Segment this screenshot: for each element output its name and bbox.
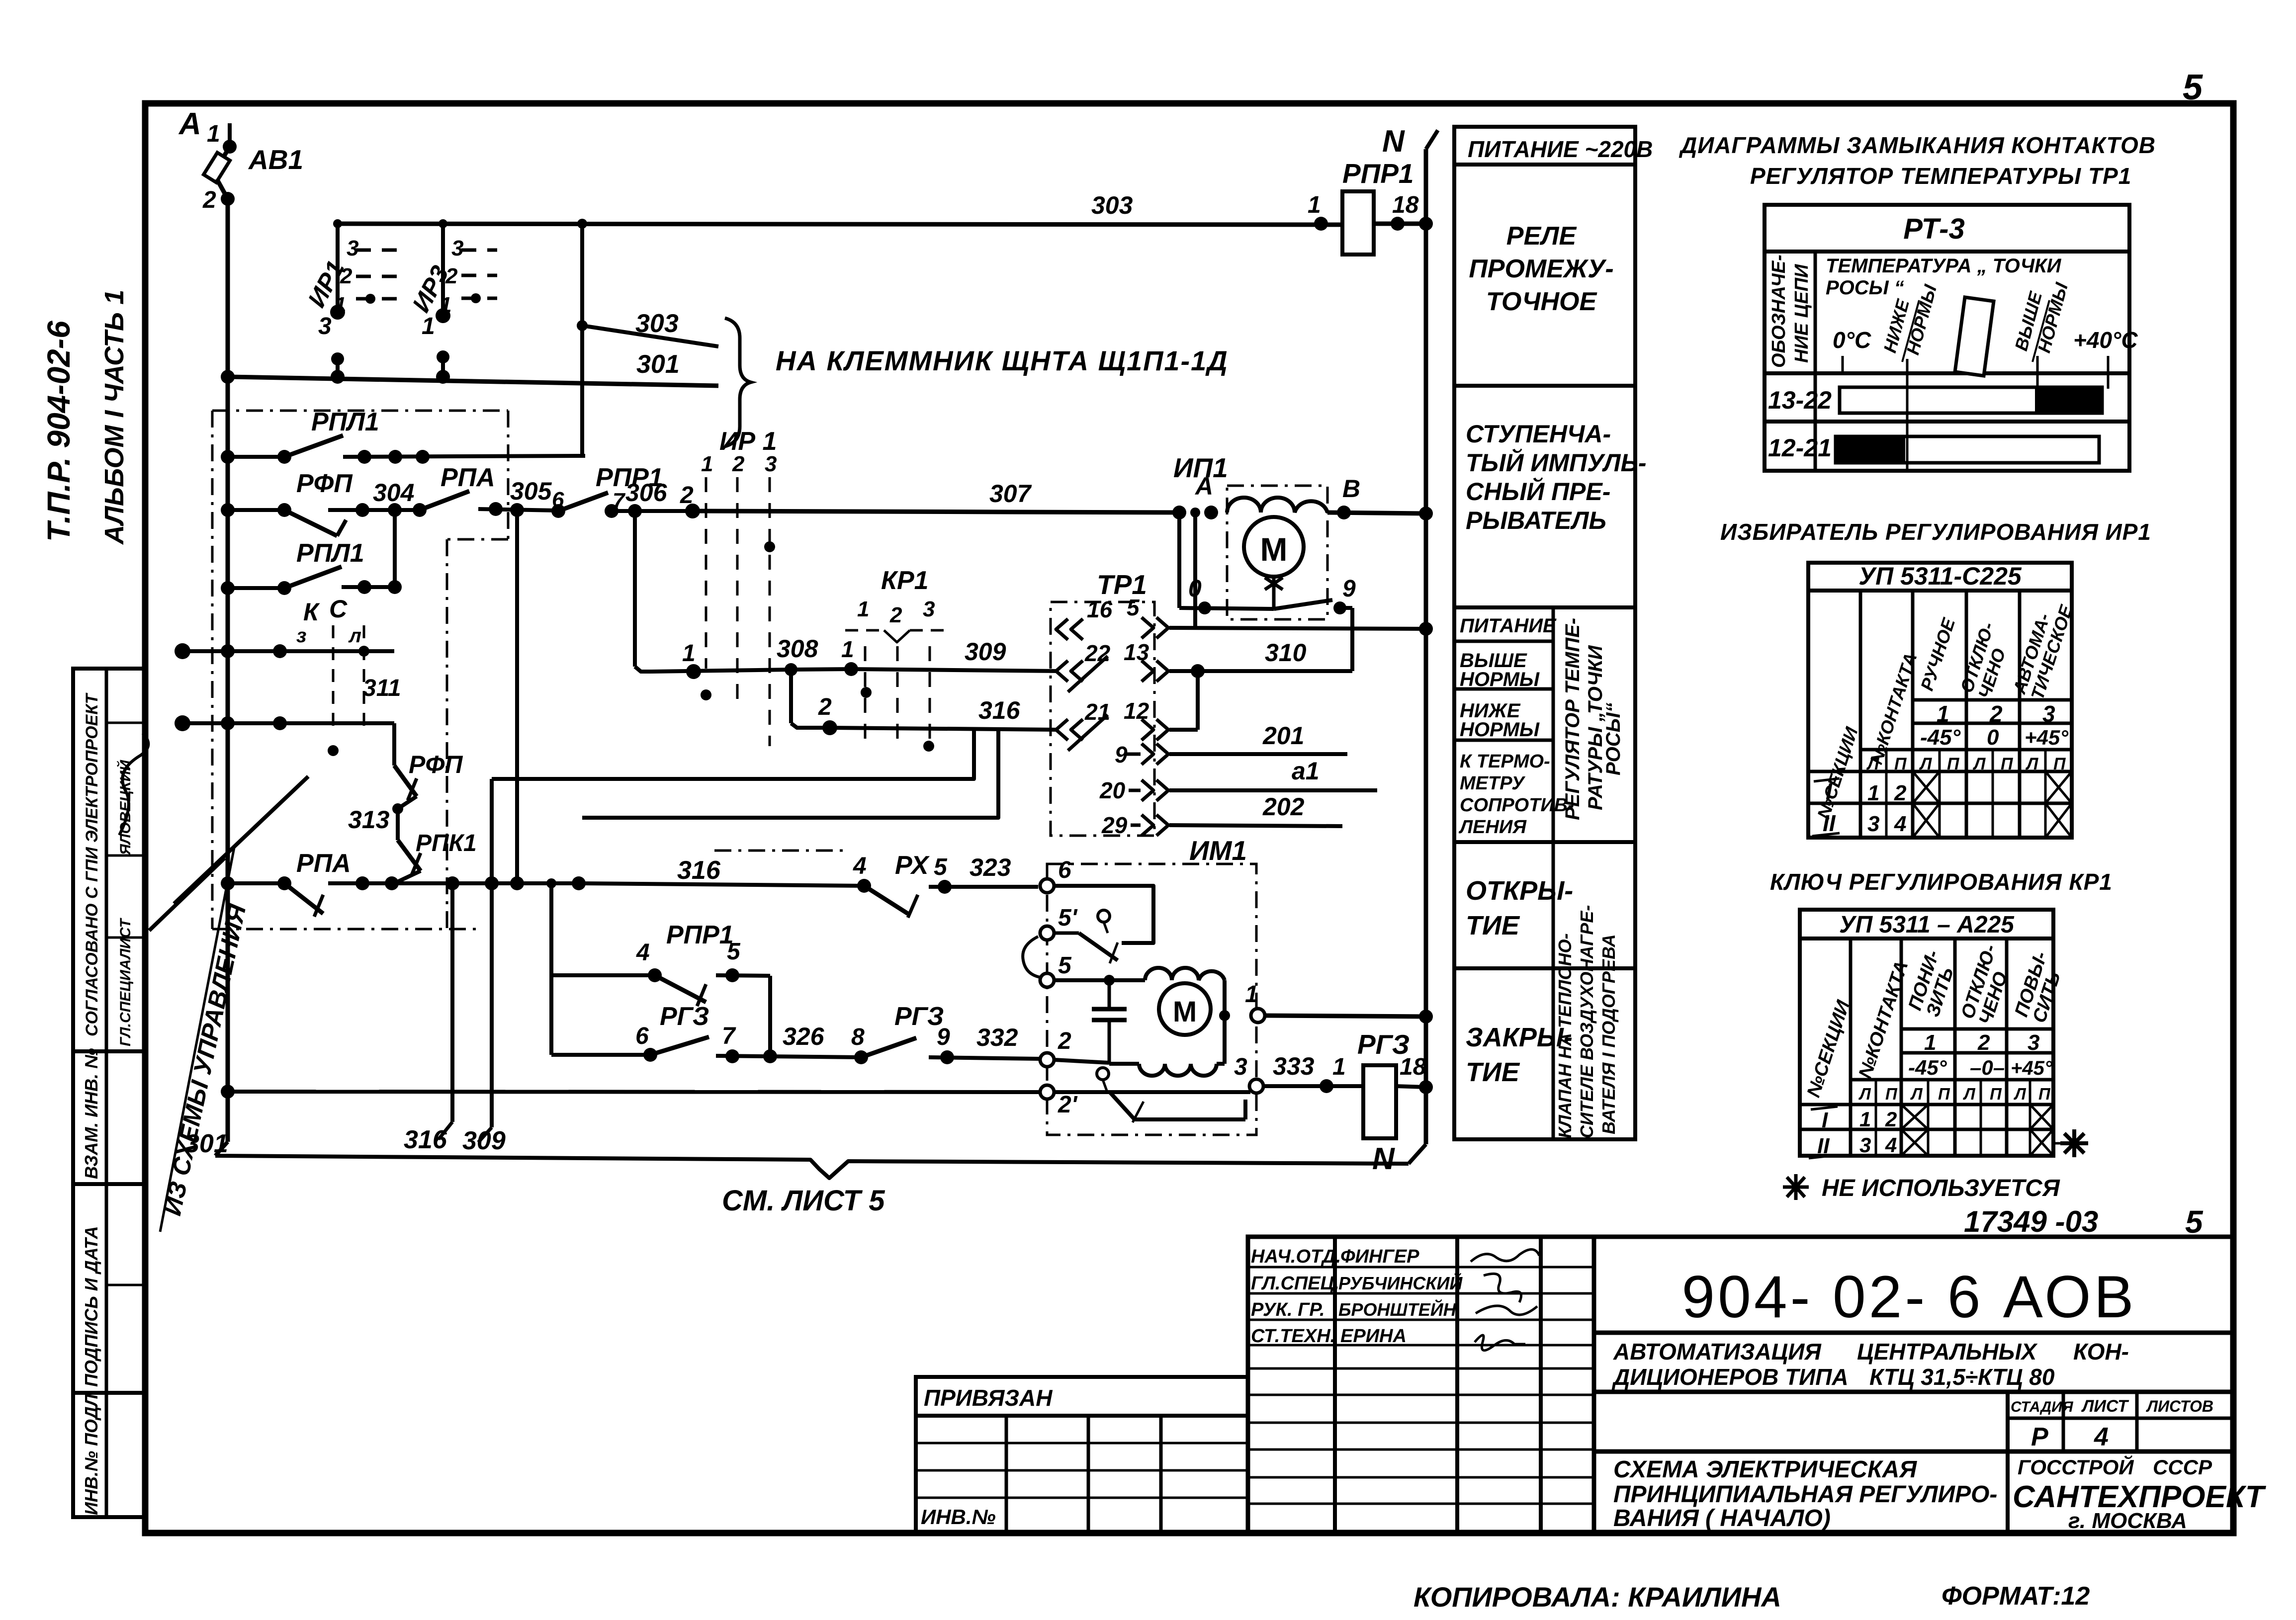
svg-text:РТ-3: РТ-3	[1903, 213, 1964, 245]
KR1 table row L P cells	[1875, 1080, 1877, 1156]
contact RX row wire 323	[857, 879, 871, 893]
svg-text:0°С: 0°С	[1833, 327, 1871, 353]
svg-text:12: 12	[1124, 698, 1149, 724]
svg-text:1: 1	[682, 640, 696, 667]
svg-text:ГЛ.СПЕЦИАЛИСТ: ГЛ.СПЕЦИАЛИСТ	[117, 918, 134, 1046]
IP1 motor circle M	[1244, 517, 1304, 577]
svg-text:5: 5	[1127, 595, 1140, 620]
wire 304 segment	[328, 508, 420, 512]
svg-text:304: 304	[373, 479, 414, 507]
svg-text:306: 306	[625, 479, 668, 507]
svg-text:СНЫЙ ПРЕ-: СНЫЙ ПРЕ-	[1466, 477, 1610, 506]
svg-text:+45°: +45°	[2025, 726, 2069, 749]
chain RFP 313 RPK1 vertical	[392, 723, 396, 766]
contact RGZ row wire 326 332	[643, 1048, 657, 1062]
svg-text:4: 4	[636, 939, 650, 966]
see sheet 5 bottom wire	[215, 1156, 1409, 1178]
svg-text:2: 2	[680, 482, 694, 509]
wire to IM1 terminal 2prime from left bus	[228, 1092, 1040, 1092]
IM1 terminal 3 wire 333	[1249, 1079, 1263, 1093]
svg-text:5: 5	[1058, 952, 1072, 979]
svg-text:18: 18	[1400, 1054, 1426, 1080]
wire 311 row with terminal dot	[175, 715, 190, 731]
svg-text:НА КЛЕММНИК ЩНТА Щ1П1-1Д: НА КЛЕММНИК ЩНТА Щ1П1-1Д	[776, 345, 1229, 376]
svg-text:4: 4	[853, 853, 867, 879]
svg-text:з: з	[296, 625, 306, 647]
svg-text:КЛАПАН НА ТЕПЛОНО-: КЛАПАН НА ТЕПЛОНО-	[1555, 934, 1575, 1138]
svg-text:РПА: РПА	[441, 463, 495, 492]
svg-text:АВТОМАТИЗАЦИЯ: АВТОМАТИЗАЦИЯ	[1613, 1339, 1822, 1364]
svg-text:РПЛ1: РПЛ1	[296, 539, 364, 568]
svg-text:301: 301	[636, 350, 680, 379]
svg-text:13: 13	[1124, 639, 1149, 665]
svg-text:УП 5311 – А225: УП 5311 – А225	[1839, 912, 2015, 938]
link 306 down to row B	[633, 511, 637, 667]
svg-text:ВАНИЯ ( НАЧАЛО): ВАНИЯ ( НАЧАЛО)	[1613, 1505, 1831, 1532]
wire 307 to IP1	[685, 504, 700, 518]
svg-text:ГЛ.СПЕЦ.: ГЛ.СПЕЦ.	[1251, 1273, 1339, 1294]
svg-text:М: М	[1260, 531, 1288, 568]
wire 309 row B continuation	[791, 669, 851, 670]
wire 301 bottom label and lead to sheet5 line	[215, 1142, 228, 1156]
svg-text:310: 310	[1265, 639, 1307, 667]
svg-text:2: 2	[1058, 1028, 1071, 1054]
svg-text:1: 1	[701, 452, 713, 476]
svg-text:-45°: -45°	[1908, 1056, 1947, 1079]
svg-text:ИНВ.№: ИНВ.№	[921, 1505, 996, 1529]
svg-text:1: 1	[422, 313, 435, 340]
svg-text:НИЕ ЦЕПИ: НИЕ ЦЕПИ	[1791, 264, 1812, 363]
svg-text:303: 303	[635, 309, 679, 338]
IP1 winding arcs	[1227, 498, 1327, 512]
svg-text:308: 308	[777, 635, 818, 663]
svg-text:ФИНГЕР: ФИНГЕР	[1340, 1246, 1419, 1267]
wire 301 vertical bus from AB1	[226, 199, 230, 1142]
svg-text:АЛЬБОМ I ЧАСТЬ 1: АЛЬБОМ I ЧАСТЬ 1	[99, 290, 129, 545]
svg-text:326: 326	[783, 1023, 825, 1050]
svg-text:323: 323	[970, 853, 1011, 881]
svg-text:1: 1	[334, 293, 346, 317]
svg-text:НОРМЫ: НОРМЫ	[1460, 719, 1540, 741]
privyazan table	[916, 1377, 1248, 1533]
svg-text:1: 1	[1859, 1108, 1871, 1131]
svg-text:22: 22	[1084, 640, 1111, 666]
IP1 centrifugal switch	[1272, 576, 1276, 609]
svg-text:+45°: +45°	[2011, 1057, 2053, 1079]
svg-text:КР1: КР1	[881, 566, 929, 595]
svg-text:N: N	[1382, 124, 1405, 159]
svg-text:9: 9	[937, 1024, 950, 1050]
contact RPL1 row	[277, 581, 291, 595]
svg-text:9: 9	[1115, 742, 1128, 767]
actuator IM1 dash-dot box	[1047, 864, 1256, 1135]
svg-text:21: 21	[1084, 699, 1110, 725]
svg-text:333: 333	[1273, 1052, 1315, 1080]
svg-text:5: 5	[2185, 1204, 2204, 1240]
contact RPR1 NC bottom	[551, 973, 655, 977]
vertical wire 316 to bottom	[450, 883, 454, 1122]
title block staff table	[1248, 1237, 1594, 1533]
svg-text:332: 332	[976, 1023, 1018, 1051]
TR1 contact 21-12 row	[1056, 719, 1068, 740]
svg-text:г. МОСКВА: г. МОСКВА	[2068, 1509, 2187, 1533]
svg-text:5: 5	[727, 938, 741, 965]
svg-text:1: 1	[440, 293, 451, 317]
svg-text:20: 20	[1099, 777, 1126, 803]
svg-text:29: 29	[1101, 812, 1128, 838]
return wire y1645	[582, 730, 998, 818]
IM1 terminal 1 to N bus	[1251, 1009, 1265, 1023]
svg-text:П: П	[2038, 1085, 2051, 1103]
svg-text:309: 309	[965, 638, 1006, 666]
svg-text:18: 18	[1392, 192, 1419, 218]
svg-text:Р: Р	[2031, 1423, 2048, 1451]
svg-text:ИЗБИРАТЕЛЬ РЕГУЛИРОВАНИЯ: ИЗБИРАТЕЛЬ РЕГУЛИРОВАНИЯ ИР1	[1720, 519, 2151, 545]
svg-text:МЕТРУ: МЕТРУ	[1460, 773, 1526, 794]
svg-text:АВ1: АВ1	[248, 144, 303, 175]
svg-text:ВАТЕЛЯ I ПОДОГРЕВА: ВАТЕЛЯ I ПОДОГРЕВА	[1598, 934, 1619, 1134]
legend regulator temperatury section	[1552, 607, 1555, 1139]
svg-text:ИМ1: ИМ1	[1189, 835, 1247, 866]
svg-text:В: В	[1342, 475, 1360, 503]
svg-text:ДИЦИОНЕРОВ ТИПА: ДИЦИОНЕРОВ ТИПА	[1611, 1364, 1849, 1390]
svg-text:17349 -03: 17349 -03	[1964, 1205, 2098, 1238]
svg-text:904- 02- 6 АОВ: 904- 02- 6 АОВ	[1681, 1264, 2136, 1330]
svg-text:П: П	[1990, 1085, 2002, 1103]
svg-text:2: 2	[340, 264, 353, 288]
sidebar signature squiggle	[119, 733, 148, 835]
svg-text:а1: а1	[1292, 757, 1320, 785]
svg-text:ТР1: ТР1	[1097, 569, 1147, 600]
svg-text:РПА: РПА	[296, 849, 351, 878]
svg-text:II: II	[1823, 810, 1836, 836]
svg-text:3: 3	[1859, 1133, 1871, 1157]
svg-text:ТЕМПЕРАТУРА „ ТОЧКИ: ТЕМПЕРАТУРА „ ТОЧКИ	[1826, 255, 2062, 277]
contact RPA bottom row wire 316	[277, 876, 291, 890]
svg-text:л: л	[348, 625, 361, 647]
svg-text:311: 311	[363, 675, 401, 701]
svg-text:305: 305	[510, 477, 552, 505]
svg-text:РХ: РХ	[895, 851, 930, 880]
svg-text:НЕ ИСПОЛЬЗУЕТСЯ: НЕ ИСПОЛЬЗУЕТСЯ	[1822, 1175, 2060, 1201]
TR1 contact 16-5 row	[1193, 512, 1197, 628]
svg-text:201: 201	[1262, 722, 1304, 750]
RT-3 parallelogram pointer	[1955, 297, 1994, 376]
svg-text:БРОНШТЕЙН: БРОНШТЕЙН	[1338, 1299, 1457, 1320]
svg-text:СОГЛАСОВАНО С ГПИ ЭЛЕКТРОПР: СОГЛАСОВАНО С ГПИ ЭЛЕКТРОПРОЕКТ	[83, 692, 101, 1036]
svg-text:6: 6	[1058, 857, 1071, 883]
IM1 linkage arc between 5prime and 5	[1023, 937, 1040, 977]
svg-text:ТЫЙ ИМПУЛЬ-: ТЫЙ ИМПУЛЬ-	[1466, 448, 1647, 477]
svg-text:ЦЕНТРАЛЬНЫХ: ЦЕНТРАЛЬНЫХ	[1857, 1339, 2037, 1364]
KS row stub with terminal dot	[175, 643, 190, 659]
svg-text:5: 5	[934, 854, 948, 880]
svg-text:303: 303	[1091, 191, 1133, 219]
staff signatures	[1471, 1249, 1539, 1262]
svg-text:КОПИРОВАЛА: КРАИЛИНА: КОПИРОВАЛА: КРАИЛИНА	[1413, 1581, 1781, 1613]
vertical link 304 to RPL1 row	[393, 510, 397, 587]
svg-text:2: 2	[818, 694, 832, 720]
svg-text:2: 2	[202, 187, 216, 213]
wire 303 top horizontal	[338, 224, 1342, 225]
svg-text:РПР1: РПР1	[1342, 158, 1414, 189]
note ne ispolzuetsya	[1783, 1174, 1809, 1200]
svg-text:N: N	[1372, 1142, 1395, 1176]
IM1 terminal 5prime	[1040, 926, 1054, 940]
wire 303 stub to terminal strip	[580, 224, 584, 456]
svg-text:РОСЫ “: РОСЫ “	[1826, 277, 1904, 299]
vertical 309 drop	[490, 779, 494, 1127]
svg-text:+40°С: +40°С	[2073, 327, 2138, 353]
svg-text:А: А	[1194, 472, 1213, 500]
svg-text:9: 9	[1342, 576, 1356, 602]
wire 316 row C	[789, 670, 793, 723]
IM1 lower limit contact	[1054, 1090, 1250, 1094]
svg-text:РЕГУЛЯТОР ТЕМПЕ-: РЕГУЛЯТОР ТЕМПЕ-	[1562, 618, 1584, 820]
svg-text:Л: Л	[1963, 1085, 1976, 1103]
svg-text:202: 202	[1262, 793, 1305, 821]
IM1 motor and windings	[1054, 978, 1145, 982]
svg-text:2: 2	[1885, 1108, 1897, 1131]
svg-text:316: 316	[978, 696, 1021, 724]
svg-text:1: 1	[1332, 1054, 1346, 1080]
svg-text:7: 7	[722, 1023, 736, 1049]
svg-text:Л: Л	[1910, 1085, 1923, 1103]
svg-text:ВЗАМ. ИНВ. №: ВЗАМ. ИНВ. №	[81, 1048, 101, 1179]
mechanical linkage dash-dot	[714, 850, 845, 852]
IR1 table row L P cells	[1885, 750, 1888, 838]
svg-text:3: 3	[1234, 1054, 1247, 1080]
svg-text:Л: Л	[2014, 1085, 2027, 1103]
svg-text:ЛЕНИЯ: ЛЕНИЯ	[1458, 817, 1527, 838]
svg-text:СТУПЕНЧА-: СТУПЕНЧА-	[1466, 420, 1611, 448]
svg-text:СОПРОТИВ-: СОПРОТИВ-	[1460, 795, 1574, 816]
svg-text:1: 1	[1308, 192, 1321, 218]
contact RPR1 row A	[551, 504, 565, 518]
svg-text:А: А	[178, 107, 201, 141]
IP1 bottom terminals 0 and 9	[1177, 512, 1181, 608]
svg-text:12-21: 12-21	[1768, 434, 1832, 462]
svg-text:2: 2	[732, 452, 745, 476]
vertical 316 drop from node 305	[515, 510, 519, 883]
svg-text:К ТЕРМО-: К ТЕРМО-	[1460, 751, 1550, 772]
svg-text:СТ.ТЕХН.: СТ.ТЕХН.	[1251, 1326, 1335, 1347]
svg-text:4: 4	[2094, 1423, 2109, 1451]
svg-text:II: II	[1817, 1134, 1830, 1158]
IM1 capacitor	[1108, 980, 1111, 1009]
diagonal note iz skhemy upravleniya	[174, 776, 308, 904]
svg-text:РГЗ: РГЗ	[660, 1002, 709, 1031]
svg-text:СТАДИЯ: СТАДИЯ	[2011, 1399, 2074, 1415]
svg-text:Л: Л	[1858, 1085, 1871, 1103]
stadia list listov header cells	[2006, 1392, 2010, 1533]
svg-text:3: 3	[765, 452, 777, 476]
svg-text:ПИТАНИЕ ~220В: ПИТАНИЕ ~220В	[1468, 136, 1653, 162]
svg-text:ДИАГРАММЫ ЗАМЫКАНИЯ КОНТАК: ДИАГРАММЫ ЗАМЫКАНИЯ КОНТАКТОВ	[1678, 132, 2156, 158]
svg-text:316: 316	[677, 856, 721, 885]
svg-text:0: 0	[1987, 725, 1999, 750]
svg-text:НАЧ.ОТД.: НАЧ.ОТД.	[1251, 1246, 1341, 1267]
svg-text:313: 313	[348, 806, 390, 834]
IR1 table row 1 2 3	[1913, 698, 2072, 702]
svg-text:РЕГУЛЯТОР ТЕМПЕРАТУРЫ ТР1: РЕГУЛЯТОР ТЕМПЕРАТУРЫ ТР1	[1750, 163, 2131, 189]
svg-text:316: 316	[404, 1125, 447, 1154]
KR1 asterisk marker	[2060, 1129, 2088, 1157]
interrupter IP1 dash-dot box	[1227, 486, 1327, 619]
relay coil RGZ	[1363, 1065, 1396, 1138]
svg-text:С: С	[329, 595, 348, 623]
svg-text:РОСЫ“: РОСЫ“	[1602, 702, 1624, 775]
svg-text:–0–: –0–	[1970, 1056, 2005, 1079]
svg-text:УП 5311-С225: УП 5311-С225	[1858, 562, 2022, 590]
legend table pitanie 220V column	[1454, 127, 1635, 1139]
svg-text:РУБЧИНСКИЙ: РУБЧИНСКИЙ	[1338, 1273, 1463, 1293]
table UP 5311-A225 frame	[1800, 910, 2053, 1156]
svg-text:1: 1	[857, 597, 869, 621]
table RT-3 frame	[1765, 205, 2129, 471]
svg-text:П: П	[1885, 1085, 1898, 1103]
svg-text:ЛИСТОВ: ЛИСТОВ	[2146, 1397, 2213, 1415]
svg-text:СССР: СССР	[2153, 1455, 2212, 1479]
svg-text:I: I	[1826, 778, 1833, 804]
IM1 terminal 6	[1040, 879, 1054, 893]
svg-text:ПРИНЦИПИАЛЬНАЯ РЕГУЛИРО-: ПРИНЦИПИАЛЬНАЯ РЕГУЛИРО-	[1613, 1481, 1997, 1508]
svg-text:ИНВ.№ ПОДЛ.: ИНВ.№ ПОДЛ.	[81, 1389, 101, 1515]
svg-text:5': 5'	[1058, 905, 1078, 931]
svg-text:К: К	[303, 598, 320, 626]
selector IR3 top contacts	[441, 224, 445, 316]
svg-text:4: 4	[1885, 1133, 1897, 1157]
RT-3 scale ticks	[1842, 356, 1844, 373]
svg-text:М: М	[1173, 996, 1197, 1028]
svg-text:ОТКРЫ-: ОТКРЫ-	[1466, 876, 1573, 906]
circuit breaker AB1	[228, 123, 232, 147]
IM1 upper limit contact	[1054, 886, 1153, 943]
svg-text:ТИЕ: ТИЕ	[1466, 911, 1520, 940]
selector IR1 top contacts	[336, 224, 340, 312]
title block main cell 904-02-6 AOB	[1594, 1237, 2232, 1533]
brace to panel terminal block	[725, 318, 751, 446]
svg-text:СХЕМА ЭЛЕКТРИЧЕСКАЯ: СХЕМА ЭЛЕКТРИЧЕСКАЯ	[1613, 1456, 1917, 1483]
svg-text:РПЛ1: РПЛ1	[311, 408, 379, 436]
svg-text:ПИТАНИЕ: ПИТАНИЕ	[1460, 615, 1557, 637]
svg-text:РПК1: РПК1	[416, 830, 477, 856]
svg-text:1: 1	[841, 636, 854, 662]
IM1 terminal 5	[1040, 973, 1054, 987]
svg-text:П: П	[1938, 1085, 1950, 1103]
table UP 5311-C225 frame	[1808, 563, 2072, 838]
IM1 terminal 2prime	[1040, 1085, 1054, 1099]
svg-text:4: 4	[1894, 812, 1906, 836]
KR1 table row 1 2 3	[1901, 1027, 2053, 1031]
svg-text:3: 3	[923, 597, 935, 621]
svg-text:1: 1	[1245, 981, 1258, 1008]
svg-text:Т.П.Р. 904-02-6: Т.П.Р. 904-02-6	[41, 321, 77, 542]
svg-text:РФП: РФП	[296, 469, 353, 498]
left sidebar stamp table	[73, 669, 145, 1517]
dash-dot enclosure local panel	[212, 410, 508, 412]
svg-text:2': 2'	[1058, 1092, 1078, 1118]
svg-text:ЯЛОВЕЦКИЙ: ЯЛОВЕЦКИЙ	[116, 760, 134, 855]
svg-text:ГОССТРОЙ: ГОССТРОЙ	[2018, 1454, 2134, 1479]
svg-text:НОРМЫ: НОРМЫ	[1460, 669, 1540, 690]
svg-text:ПРОМЕЖУ-: ПРОМЕЖУ-	[1469, 255, 1613, 283]
wire 301 horizontal bus	[228, 377, 718, 386]
svg-text:ПОДПИСЬ И ДАТА: ПОДПИСЬ И ДАТА	[81, 1226, 101, 1387]
svg-text:-45°: -45°	[1920, 725, 1961, 750]
svg-text:РЫВАТЕЛЬ: РЫВАТЕЛЬ	[1466, 507, 1606, 534]
svg-text:6: 6	[635, 1023, 649, 1049]
svg-text:СМ. ЛИСТ 5: СМ. ЛИСТ 5	[722, 1185, 885, 1217]
contact RPA row A	[413, 503, 427, 517]
svg-text:ТОЧНОЕ: ТОЧНОЕ	[1486, 287, 1597, 316]
svg-text:КЛЮЧ РЕГУЛИРОВАНИЯ КР1: КЛЮЧ РЕГУЛИРОВАНИЯ КР1	[1770, 869, 2113, 895]
return wire y1567	[492, 728, 974, 779]
svg-text:2: 2	[889, 603, 902, 627]
svg-text:3: 3	[318, 313, 332, 340]
svg-text:ПРИВЯЗАН: ПРИВЯЗАН	[924, 1385, 1053, 1411]
svg-text:РУК. ГР.: РУК. ГР.	[1251, 1299, 1325, 1320]
svg-text:1: 1	[207, 121, 220, 147]
IM1 terminal 2	[1040, 1053, 1054, 1067]
svg-text:ТИЕ: ТИЕ	[1466, 1057, 1520, 1087]
contact RPL1 upper row	[277, 450, 291, 464]
svg-text:ЕРИНА: ЕРИНА	[1340, 1326, 1407, 1347]
svg-text:13-22: 13-22	[1768, 386, 1832, 414]
svg-text:3: 3	[1867, 812, 1879, 836]
svg-text:ФОРМАТ:12: ФОРМАТ:12	[1942, 1582, 2090, 1611]
svg-text:РФП: РФП	[409, 751, 463, 778]
svg-text:ЛИСТ: ЛИСТ	[2081, 1397, 2129, 1416]
svg-text:СИТЕЛЕ ВОЗДУХОНАГРЕ-: СИТЕЛЕ ВОЗДУХОНАГРЕ-	[1577, 905, 1597, 1138]
svg-text:2: 2	[445, 264, 458, 288]
contact RFP row A	[277, 503, 291, 517]
svg-text:16: 16	[1087, 597, 1113, 622]
svg-text:КОН-: КОН-	[2073, 1339, 2129, 1364]
regulator TR1 dash-dot box	[1051, 602, 1154, 836]
svg-text:ОБОЗНАЧЕ-: ОБОЗНАЧЕ-	[1768, 255, 1789, 368]
legend cell otkrytie	[1454, 966, 1635, 970]
svg-text:КТЦ 31,5÷КТЦ 80: КТЦ 31,5÷КТЦ 80	[1869, 1364, 2055, 1390]
svg-text:307: 307	[989, 480, 1032, 508]
link down to RPR1 row	[549, 883, 553, 1055]
TR1 contact 22-13 row	[1056, 661, 1068, 682]
svg-text:РЕЛЕ: РЕЛЕ	[1506, 222, 1577, 251]
svg-text:8: 8	[851, 1024, 865, 1050]
svg-text:309: 309	[462, 1126, 506, 1155]
svg-text:5: 5	[2183, 68, 2203, 107]
svg-text:РПР1: РПР1	[666, 921, 734, 949]
